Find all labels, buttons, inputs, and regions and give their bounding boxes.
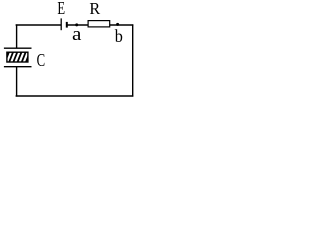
battery E short plate <box>66 22 68 28</box>
wire battery to resistor <box>67 24 88 26</box>
capacitor dielectric slab hatch <box>4 50 35 64</box>
wire top-left segment <box>16 24 62 26</box>
svg-text:a: a <box>72 24 82 45</box>
svg-text:E: E <box>57 0 65 18</box>
node b <box>116 23 119 26</box>
wire resistor to right corner <box>110 24 133 26</box>
capacitor C bottom plate <box>4 66 32 68</box>
node a <box>75 23 78 26</box>
svg-text:R: R <box>89 0 100 18</box>
wire left upper <box>16 24 18 48</box>
battery E long plate <box>60 18 62 30</box>
capacitor C top plate <box>4 47 32 49</box>
svg-text:b: b <box>115 26 123 46</box>
resistor R <box>88 21 110 27</box>
wire bottom <box>16 95 134 97</box>
wire right side <box>132 24 134 96</box>
svg-text:C: C <box>37 50 46 70</box>
wire left lower <box>16 67 18 97</box>
